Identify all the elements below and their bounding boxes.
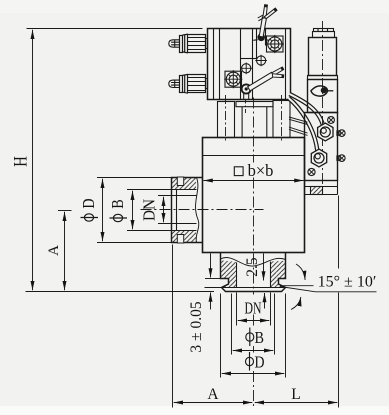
actuator internal line d — [252, 29, 254, 100]
dimension H line — [32, 30, 34, 291]
left pipe hatch bottom band — [172, 231, 197, 243]
svg-text:b×b: b×b — [248, 161, 274, 180]
dimension DN-left line — [163, 197, 165, 223]
dimension A left line — [64, 212, 66, 291]
solenoid manifold body — [305, 113, 338, 181]
left pipe wavy break line — [196, 178, 199, 243]
left pipe hatch top band — [172, 178, 197, 190]
label PhiB left — [108, 199, 127, 221]
internal lever arm — [248, 72, 274, 91]
dimension PhiB bottom line — [233, 350, 274, 352]
stem housing right wall — [266, 107, 268, 138]
internal lever fork tip upper — [281, 67, 284, 70]
angle reference line — [280, 285, 314, 287]
manual lever fork prong left — [263, 5, 268, 18]
dimension 2.5 upper arrow — [263, 254, 265, 281]
bolt U2 crosshair — [224, 70, 242, 88]
port bolt B — [255, 55, 267, 67]
left pipe counterbore face — [176, 190, 178, 231]
label PhiD bottom — [246, 352, 265, 372]
dimension DN bottom extension lines — [236, 293, 238, 326]
bottom neck wavy break — [221, 257, 286, 266]
dimension A/L right extension line — [338, 196, 340, 408]
actuator internal line a — [213, 29, 215, 100]
solenoid top nub — [314, 29, 334, 32]
internal lever fork prong lower — [272, 74, 284, 78]
angle arc arrow lower — [291, 297, 301, 310]
yoke left pillar — [218, 102, 235, 138]
dimension 2.5 lower arrow — [264, 293, 266, 309]
svg-text:H: H — [11, 156, 32, 167]
bottom neck bore left — [236, 263, 238, 288]
dimension 3 lower arrow — [210, 293, 212, 310]
dimension DN-left extension lines — [158, 195, 177, 197]
label PhiB bottom — [246, 328, 264, 348]
bolt U2 circles — [226, 72, 240, 86]
dimension H extension line top — [27, 28, 203, 30]
yoke top plate — [236, 102, 273, 107]
left pipe groove bottom (white notch) — [177, 235, 183, 244]
bracket hatched pad — [311, 187, 323, 195]
side bolt 2 — [337, 155, 345, 162]
dimension H extension line bottom — [26, 291, 215, 293]
svg-text:DN: DN — [140, 199, 159, 221]
label PhiD left — [79, 198, 98, 221]
dimension PhiD bottom line — [222, 373, 285, 375]
svg-text:2.5: 2.5 — [244, 257, 261, 277]
air fitting 2 flange disc — [180, 76, 183, 93]
bottom neck outline — [221, 253, 286, 292]
actuator channel wall left — [256, 29, 258, 60]
svg-text:B: B — [108, 199, 127, 209]
side pipe centerline — [141, 209, 264, 211]
air tube A inner — [290, 94, 324, 127]
dimension PhiB-left extension lines — [127, 189, 177, 191]
air fitting 1 cone — [182, 34, 188, 53]
left inlet pipe flange outline — [172, 178, 203, 243]
actuator internal line b — [219, 29, 221, 100]
manual lever fork prong right — [264, 8, 277, 19]
angle leader line — [280, 287, 377, 292]
dimension A/L left extension line — [172, 245, 174, 408]
bottom neck bore right — [270, 262, 272, 288]
solenoid step ring — [308, 76, 338, 80]
dimension b x b line — [204, 180, 304, 182]
bolt U2 square pad — [225, 71, 242, 87]
actuator channel wall right — [265, 29, 267, 46]
dimension PhiD-left line — [102, 179, 104, 242]
pivot centerline — [245, 100, 247, 114]
manifold bolt X1 — [328, 117, 335, 124]
svg-text:A: A — [207, 386, 219, 403]
yoke right pillar centerline — [281, 95, 283, 142]
pivot bracket — [244, 94, 249, 100]
angle arc arrow upper — [296, 264, 305, 280]
svg-text:DN: DN — [245, 299, 262, 318]
dimension DN bottom line — [238, 320, 270, 322]
manifold bolt X2 — [308, 168, 315, 175]
bottom neck hatch left — [221, 260, 237, 287]
left pipe inner bore top — [177, 195, 197, 197]
mounting bracket — [305, 181, 338, 195]
dimension 3 upper arrow — [210, 254, 212, 278]
solenoid centerline — [322, 21, 324, 187]
internal lever pivot — [242, 84, 251, 93]
bracket arm upper — [289, 117, 308, 125]
main body bonnet joint line — [203, 155, 305, 157]
svg-text:B: B — [255, 328, 265, 347]
solenoid cap plate — [313, 32, 335, 38]
air fitting 1 body — [188, 35, 206, 53]
yoke right pillar — [273, 101, 290, 138]
left pipe counterbore top — [177, 189, 197, 191]
air fitting 1 stem — [206, 39, 208, 49]
air tube B inner — [289, 98, 318, 151]
actuator channel shelf — [241, 58, 257, 60]
svg-text:D: D — [79, 198, 98, 208]
actuator internal line e — [285, 29, 287, 100]
yoke left pillar centerline — [225, 95, 227, 142]
manual lever prong tip left — [264, 5, 267, 7]
dimension L bottom line — [255, 402, 338, 404]
solenoid flow symbol — [311, 86, 333, 96]
air fitting 2 body — [188, 75, 206, 93]
tube hex fitting 1 — [318, 123, 333, 141]
main valve body block — [203, 138, 305, 253]
bolt U1 square pad — [267, 36, 284, 52]
air fitting 1 flange disc — [180, 36, 183, 53]
air fitting 2 cone — [182, 74, 188, 93]
manual lever ball joint — [257, 34, 265, 42]
svg-text:15° ± 10′: 15° ± 10′ — [318, 274, 377, 291]
internal lever fork prong upper — [272, 67, 284, 76]
air tube B outer — [289, 98, 318, 151]
manual lever shaft — [258, 13, 268, 36]
dimension PhiD-left extension lines — [97, 177, 172, 179]
dimension 3 extension line mid — [205, 287, 222, 289]
main vertical centerline — [253, 98, 255, 408]
side bolt 1 — [337, 130, 345, 137]
manual lever prong tip right — [274, 8, 277, 11]
bolt U1 circles — [268, 37, 282, 51]
air tube A outer — [290, 94, 324, 127]
dimension A left tick — [58, 210, 72, 212]
label square b x b — [234, 167, 243, 176]
tube hex fitting 2 — [311, 149, 326, 167]
svg-text:A: A — [46, 245, 62, 256]
air fitting 2 stem — [206, 79, 208, 89]
dimension 3 extension line upper — [205, 278, 221, 280]
dimension PhiD bottom extension lines — [220, 294, 222, 378]
left pipe groove top (white notch) — [177, 177, 183, 186]
svg-text:D: D — [255, 353, 265, 372]
svg-text:3 ± 0.05: 3 ± 0.05 — [188, 301, 205, 352]
internal lever fork tip lower — [282, 75, 284, 78]
stem housing left wall — [241, 107, 243, 138]
port bolt A — [240, 63, 252, 75]
dimension A bottom line — [174, 402, 253, 404]
left pipe counterbore bottom — [177, 230, 197, 232]
bottom neck hatch right — [271, 261, 286, 288]
left pipe inner bore bottom — [177, 223, 197, 225]
air fitting 2 nipple — [169, 80, 180, 87]
bottom neck seal face line — [222, 287, 286, 289]
dimension PhiB-left line — [132, 191, 134, 230]
top actuator block outline — [208, 29, 291, 100]
bracket arm lower — [289, 127, 308, 135]
solenoid valve body — [308, 80, 338, 113]
dimension PhiB bottom extension lines — [231, 294, 233, 355]
svg-text:L: L — [291, 386, 300, 403]
solenoid coil body — [309, 38, 337, 76]
air fitting 1 nipple — [169, 40, 180, 47]
manual lever socket lines — [253, 39, 269, 42]
bolt U1 crosshair — [266, 35, 284, 53]
actuator internal line c — [240, 29, 242, 100]
